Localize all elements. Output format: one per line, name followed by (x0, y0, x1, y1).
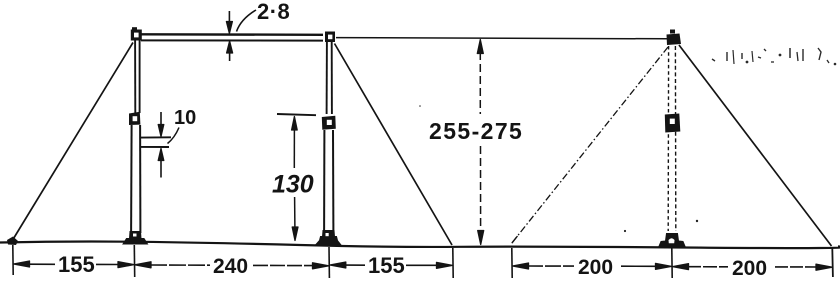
dimension 155 (right of frame) (330, 253, 453, 278)
thin top line from left frame to right pole (336, 38, 667, 39)
right pole (dashed double line) (668, 46, 676, 231)
dimension 10 (hole spacing detail) (141, 107, 196, 178)
upright post P1 (left) (131, 40, 140, 233)
dimension 240 (135, 255, 329, 278)
dimension 130 (post height) (272, 114, 316, 241)
svg-text:200: 200 (578, 256, 613, 279)
collar on post P1 (129, 112, 140, 125)
svg-text:10: 10 (174, 107, 196, 129)
base of post P1 (123, 232, 148, 245)
svg-text:130: 130 (272, 171, 314, 199)
dimension 2.8 (bar diameter) (226, 0, 290, 61)
collar on post P2 (322, 116, 336, 130)
upright post P2 (right of frame) (324, 42, 333, 233)
collar on right pole (665, 114, 681, 133)
ground anchor left (7, 237, 18, 246)
corner fitting top-right of frame (325, 32, 335, 43)
extension line at x=13 (12, 245, 14, 275)
dimension 200 (left of pole) (513, 256, 672, 279)
base of post P2 (316, 231, 342, 246)
svg-text:240: 240 (213, 255, 248, 278)
svg-text:255-275: 255-275 (429, 118, 523, 144)
bleed-through specks top right (712, 48, 836, 65)
svg-text:200: 200 (732, 257, 767, 280)
dimension 200 (right of pole) (673, 257, 833, 280)
corner fitting top-left (131, 27, 142, 40)
guy wire right of frame (335, 44, 453, 246)
extension line at x=134.5 (133, 245, 135, 277)
svg-text:2·8: 2·8 (257, 0, 290, 24)
crossbar (top bar, double line) (141, 34, 323, 40)
extension line at x=832.5 (831, 248, 834, 277)
base of right pole (659, 234, 686, 248)
dimension 155 (left) (14, 252, 135, 277)
extension line at x=512 (511, 248, 513, 278)
ground line (0, 242, 840, 249)
extension line at x=453 (452, 248, 454, 278)
extension line at x=329 (328, 247, 330, 278)
guy wire right of right pole (679, 45, 832, 246)
stray scan dots (624, 230, 626, 232)
dimension 255-275 (overall height, dashed) (429, 40, 523, 245)
guy wire left of frame (12, 43, 133, 242)
svg-text:155: 155 (368, 253, 405, 278)
guy wire left of right pole (dash-dot) (512, 47, 669, 244)
svg-text:155: 155 (58, 252, 95, 277)
right pole top knob (667, 30, 682, 46)
extension line at x=672 (671, 248, 673, 278)
